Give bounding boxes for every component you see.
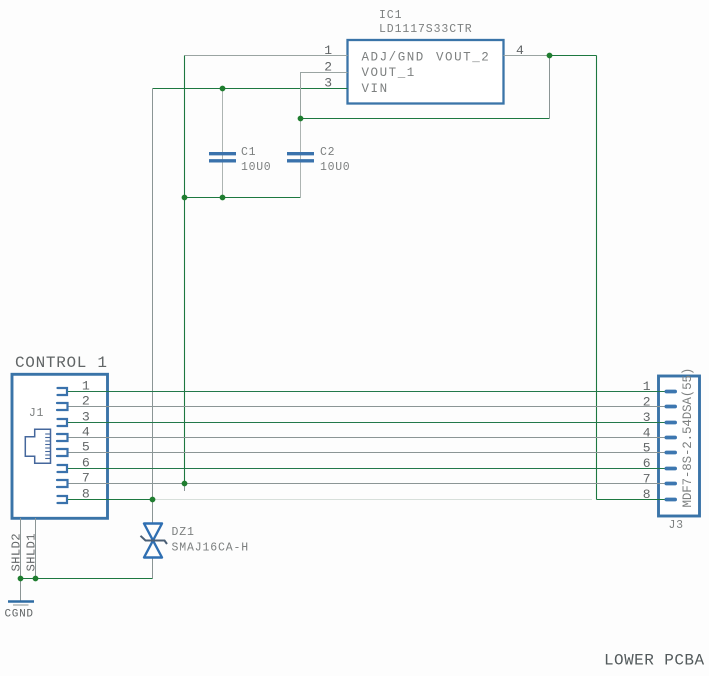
junction node: pin4 VOUT_2 [547,53,553,59]
svg-text:MDF7-8S-2.54DSA(55): MDF7-8S-2.54DSA(55) [681,368,695,508]
svg-text:CONTROL 1: CONTROL 1 [15,354,108,372]
junction node: C1 top [220,86,226,92]
svg-text:VOUT_2: VOUT_2 [436,51,490,65]
wire: row1 J1 to J3 [67,391,666,393]
svg-text:VIN: VIN [362,82,389,96]
svg-text:2: 2 [643,395,651,410]
wire: row8 VOUT to J3 pin8 [597,499,666,501]
svg-text:4: 4 [643,426,651,441]
svg-text:5: 5 [82,440,90,455]
capacitor C2 [287,154,314,161]
wire: vertical A (VIN net) x152.5 [152,89,154,500]
wire: IC pin4 horizontal y55.5 [504,55,550,57]
wire: DZ1 top stub [152,500,154,524]
svg-text:SHLD1: SHLD1 [25,533,39,571]
wire: row7 J1 to J3 [67,483,666,485]
svg-text:SMAJ16CA-H: SMAJ16CA-H [172,542,250,555]
wire: vertical x549.5 pin4 to y118.5 [549,56,551,119]
svg-text:J1: J1 [29,407,44,420]
wire: DZ1 bottom stub [152,558,154,579]
svg-text:7: 7 [643,472,651,487]
svg-text:DZ1: DZ1 [172,526,195,539]
svg-text:2: 2 [324,60,332,75]
svg-text:VOUT_1: VOUT_1 [362,66,416,80]
J3 pin numbers 1-8 [643,379,651,502]
wire: VOUT horizontal y118.5 [301,118,550,120]
wire: SHLD2 vertical x20.5 [20,518,22,579]
wire: C1 vertical x222.5 [222,89,224,198]
svg-text:1: 1 [324,43,332,58]
svg-text:7: 7 [82,471,90,486]
capacitor C1 [209,154,236,161]
J1 pin numbers 1-8 [82,379,90,502]
junction node: C2 top / VOUT [298,116,304,122]
DZ1 zener bar [141,536,168,544]
svg-text:4: 4 [516,43,524,58]
svg-text:ADJ/GND: ADJ/GND [362,51,425,65]
wire: SHLD1 vertical x35.5 [35,518,37,579]
wire: row8 faint continuation [153,499,593,501]
wire: row4 J1 to J3 [67,437,666,439]
junction node: SHLD2 to shield rail [18,576,24,582]
wire: CGND stem [20,579,22,602]
J1 pin sockets (brackets) [57,388,68,503]
svg-text:8: 8 [82,487,90,502]
svg-text:8: 8 [643,487,651,502]
svg-text:C1: C1 [241,146,256,159]
svg-text:CGND: CGND [5,609,34,621]
svg-text:5: 5 [643,441,651,456]
TVS diode DZ1 symbol [144,524,162,558]
wire: IC pin1 GND horizontal y55.5 [185,55,348,57]
wire: VOUT right segment to corner [550,55,597,57]
svg-text:J3: J3 [669,519,684,532]
wire: row3 J1 to J3 [67,422,666,424]
connector J1 box [12,374,108,518]
svg-text:C2: C2 [320,146,335,159]
svg-text:3: 3 [82,410,90,425]
wire: vertical B (GND net) x184.5 [184,56,186,484]
op-amp / regulator IC1 box [348,40,504,104]
junction node: row7 GND junction [182,481,188,487]
svg-text:4: 4 [82,425,90,440]
svg-text:IC1: IC1 [379,9,402,22]
svg-text:3: 3 [324,76,332,91]
svg-text:1: 1 [82,379,90,394]
svg-text:LD1117S33CTR: LD1117S33CTR [379,23,473,36]
svg-text:2: 2 [82,394,90,409]
J3 pin pads [665,390,678,502]
RJ jack symbol inside J1 [25,429,50,463]
wire: row6 J1 to J3 [67,468,666,470]
wire: GND horizontal y197.5 to C1 C2 bottoms [185,197,301,199]
wire: IC pin2 VOUT_1 dogleg [301,73,348,119]
junction node: GND at y197.5 [182,195,188,201]
svg-text:LOWER PCBA: LOWER PCBA [604,652,705,670]
svg-text:SHLD2: SHLD2 [10,533,24,571]
wire: VOUT vertical x596.5 [596,56,598,500]
ground CGND symbol [8,600,34,603]
svg-text:3: 3 [643,410,651,425]
wire: row8 J1 to junction [67,499,153,501]
junction node: row8 VIN junction [150,497,156,503]
svg-text:1: 1 [643,379,651,394]
wire: VIN horizontal y88.5 [153,88,348,90]
wire: stub below row7 junction x184.5 [184,484,186,492]
junction node: SHLD1 to shield rail [33,576,39,582]
svg-text:6: 6 [82,456,90,471]
connector J3 box [659,376,700,516]
svg-text:10U0: 10U0 [241,161,271,174]
wire: shield horizontal y578.5 [21,578,153,580]
wire: C2 vertical x300.5 [300,119,302,198]
wire: row2 J1 to J3 [67,406,666,408]
svg-text:6: 6 [643,456,651,471]
svg-text:10U0: 10U0 [320,161,350,174]
wire: row5 J1 to J3 [67,452,666,454]
junction node: C1 bottom [220,195,226,201]
